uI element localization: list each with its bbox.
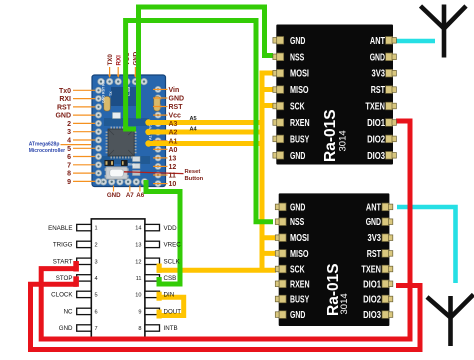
svg-text:BUSY: BUSY xyxy=(290,134,310,145)
svg-text:3V3: 3V3 xyxy=(368,233,382,244)
svg-text:TRIGG: TRIGG xyxy=(53,242,73,249)
ATmega328 QFP chip xyxy=(106,127,137,159)
wire cyan U3 ANT to antenna AE1 xyxy=(396,39,435,44)
svg-text:GND: GND xyxy=(169,96,185,103)
svg-text:VREC: VREC xyxy=(164,242,182,249)
wire green Arduino GND to U4 NSS xyxy=(126,21,273,222)
svg-text:DOUT: DOUT xyxy=(164,309,182,316)
svg-text:DIN: DIN xyxy=(164,292,175,299)
svg-text:8mg: 8mg xyxy=(128,163,135,167)
svg-text:START: START xyxy=(53,259,73,266)
svg-text:RXEN: RXEN xyxy=(290,279,310,290)
Arduino crystal Y1 xyxy=(104,97,110,112)
svg-text:SCLK: SCLK xyxy=(164,259,181,266)
DIP timer chip U2 body xyxy=(91,219,145,339)
U3 pin labels xyxy=(290,36,385,162)
svg-text:A6: A6 xyxy=(136,192,144,199)
wire yellow branch to U4 MOSI xyxy=(260,235,277,240)
LoRa module U3 Ra-01S body xyxy=(276,25,393,165)
svg-text:TXEN: TXEN xyxy=(361,265,381,276)
svg-text:RXEN: RXEN xyxy=(290,118,310,129)
svg-text:GND: GND xyxy=(290,151,305,162)
svg-text:A4: A4 xyxy=(190,126,198,132)
reset button label xyxy=(185,169,204,182)
svg-text:GND: GND xyxy=(59,325,73,332)
svg-text:12: 12 xyxy=(169,164,177,171)
svg-text:6: 6 xyxy=(95,309,98,315)
svg-text:3014: 3014 xyxy=(339,293,350,314)
svg-text:5: 5 xyxy=(67,146,71,153)
svg-text:ANT: ANT xyxy=(366,202,381,213)
Arduino capacitor C1 xyxy=(154,97,160,112)
DIP pin numbers xyxy=(95,226,142,332)
svg-text:MOSI: MOSI xyxy=(290,69,309,80)
U4 left pads xyxy=(275,203,286,318)
svg-text:GND: GND xyxy=(55,113,71,120)
svg-text:VDD: VDD xyxy=(164,225,178,232)
Arduino bottom header pins xyxy=(100,179,148,186)
svg-text:ENABLE: ENABLE xyxy=(48,225,72,232)
SMD resistors xyxy=(105,157,141,176)
svg-text:6: 6 xyxy=(67,154,71,161)
Arduino top pin labels TX0 RXI VCC GND xyxy=(107,51,140,65)
svg-text:CLOCK: CLOCK xyxy=(51,292,73,299)
Arduino right pin column xyxy=(155,86,161,186)
U3 right pads xyxy=(386,37,397,160)
svg-text:Microcontroller: Microcontroller xyxy=(29,148,66,154)
svg-text:INTB: INTB xyxy=(164,325,178,332)
svg-text:TXEN: TXEN xyxy=(365,102,385,113)
svg-text:3: 3 xyxy=(67,129,71,136)
svg-text:8: 8 xyxy=(138,326,141,332)
svg-text:10: 10 xyxy=(135,292,141,298)
yellow terminal at SCLK pin xyxy=(157,264,162,273)
svg-text:11: 11 xyxy=(136,276,142,282)
svg-text:Vin: Vin xyxy=(169,87,180,94)
svg-text:13: 13 xyxy=(169,155,177,162)
svg-text:RST: RST xyxy=(371,85,385,96)
svg-text:ANT: ANT xyxy=(370,36,385,47)
svg-text:Tx0: Tx0 xyxy=(59,88,71,95)
svg-text:SCK: SCK xyxy=(290,102,305,113)
svg-text:4: 4 xyxy=(67,138,71,145)
svg-text:3V3: 3V3 xyxy=(372,69,386,80)
wire red U2 START to U3 DIO1 xyxy=(41,121,410,339)
wire yellow U2 DIN to DOUT loop xyxy=(157,297,184,315)
wire cyan U4 ANT to antenna AE2 xyxy=(397,207,456,283)
reset button SW1 xyxy=(105,167,129,179)
svg-text:BUSY: BUSY xyxy=(290,295,310,306)
svg-text:Ra-01S: Ra-01S xyxy=(322,109,339,162)
board silkscreen xyxy=(102,80,153,167)
antenna AE1 xyxy=(421,5,467,58)
svg-text:A0: A0 xyxy=(169,147,178,154)
svg-text:MISO: MISO xyxy=(290,85,309,96)
svg-text:12: 12 xyxy=(135,259,141,265)
svg-text:A2: A2 xyxy=(169,130,178,137)
reset button leader line xyxy=(124,172,184,174)
wire green Arduino VCC to U3 NSS xyxy=(139,7,274,119)
svg-text:RXI: RXI xyxy=(116,55,123,66)
svg-text:9: 9 xyxy=(67,179,71,186)
U4 pin labels xyxy=(290,202,381,321)
svg-text:GND: GND xyxy=(107,192,121,199)
svg-text:MISO: MISO xyxy=(290,249,309,260)
DIP right pin boxes 8-14 xyxy=(145,224,160,331)
DIP left labels xyxy=(48,225,73,332)
svg-text:NSS: NSS xyxy=(290,217,305,228)
wire green Arduino pin10 to U2 CSB xyxy=(146,180,180,284)
green terminal at CSB pin xyxy=(157,277,162,287)
svg-text:7: 7 xyxy=(67,162,71,169)
svg-text:Vcc: Vcc xyxy=(169,113,182,120)
svg-text:GND: GND xyxy=(290,202,305,213)
wire yellow from Arduino A1 xyxy=(148,141,265,146)
U3 part name Ra-01S 3014 xyxy=(322,109,349,162)
svg-text:GND RST RXI: GND RST RXI xyxy=(102,80,106,103)
yellow wire start tips at Arduino inner pads xyxy=(145,119,151,146)
DIP left pin boxes 1-7 xyxy=(77,224,92,331)
svg-text:MOSI: MOSI xyxy=(290,233,309,244)
top pin leader lines xyxy=(110,67,136,77)
svg-text:9: 9 xyxy=(138,309,141,315)
svg-text:1: 1 xyxy=(95,226,98,232)
red terminal at STOP pin xyxy=(73,276,79,287)
wire yellow branch to U4 MISO xyxy=(260,251,277,256)
Arduino voltage regulator xyxy=(113,113,121,119)
svg-text:RXI: RXI xyxy=(59,96,71,103)
wire yellow SPI bus vertical xyxy=(260,71,265,273)
svg-text:CSB: CSB xyxy=(164,275,177,282)
U4 right pads xyxy=(382,203,393,318)
svg-text:3014: 3014 xyxy=(338,130,349,151)
wire yellow branch to U3 SCK xyxy=(260,103,275,108)
Arduino top FTDI header pins xyxy=(98,78,148,85)
U4 part name Ra-01S 3014 xyxy=(325,263,350,316)
svg-text:3: 3 xyxy=(95,259,98,265)
wire yellow from Arduino A3 xyxy=(148,120,265,125)
svg-text:RST: RST xyxy=(169,104,184,111)
svg-text:2: 2 xyxy=(67,121,71,128)
svg-text:DIO1: DIO1 xyxy=(363,279,381,290)
wire red U2 STOP to U4 DIO1 xyxy=(31,284,421,349)
svg-text:7: 7 xyxy=(95,326,98,332)
svg-text:RST: RST xyxy=(57,104,72,111)
Arduino Pro Mini board U1 xyxy=(92,75,166,187)
svg-text:DIO3: DIO3 xyxy=(363,310,381,321)
svg-text:14: 14 xyxy=(135,226,141,232)
U3 left pads xyxy=(273,37,284,160)
svg-text:Button: Button xyxy=(185,176,204,182)
svg-text:13: 13 xyxy=(135,242,141,248)
svg-text:SCK: SCK xyxy=(290,265,305,276)
antenna AE2 xyxy=(427,295,474,347)
DIP right labels xyxy=(164,225,182,332)
red terminal at START pin xyxy=(73,261,79,272)
svg-text:ATmega628p: ATmega628p xyxy=(29,141,60,147)
LoRa module U4 Ra-01S body xyxy=(279,193,390,326)
wire yellow branch to U3 MOSI xyxy=(260,71,275,76)
wire yellow U2 SCLK to U4 SCK xyxy=(157,268,276,273)
svg-text:11: 11 xyxy=(169,173,177,180)
svg-text:GND: GND xyxy=(370,52,385,63)
wire yellow branch to U3 MISO xyxy=(260,87,275,92)
Arduino left pin labels xyxy=(55,88,71,186)
svg-text:DIO3: DIO3 xyxy=(367,151,385,162)
svg-text:TX0: TX0 xyxy=(107,54,114,66)
Arduino bottom pin labels GND A7 A6 xyxy=(107,192,145,199)
svg-text:NSS: NSS xyxy=(290,52,305,63)
svg-text:RST: RST xyxy=(367,249,381,260)
svg-text:A3: A3 xyxy=(169,121,178,128)
wire yellow from Arduino A2 xyxy=(148,130,265,135)
Arduino left pin leader lines xyxy=(73,90,95,181)
svg-text:NC: NC xyxy=(64,309,73,316)
svg-text:A1: A1 xyxy=(169,138,178,145)
wire net labels A5 A4 xyxy=(190,116,198,132)
svg-text:Reset: Reset xyxy=(185,169,201,175)
svg-text:5: 5 xyxy=(95,292,98,298)
svg-text:STOP: STOP xyxy=(56,275,73,282)
svg-text:DIO2: DIO2 xyxy=(363,295,381,306)
svg-text:TX: TX xyxy=(109,91,113,96)
yellow terminal at DOUT pin xyxy=(157,310,162,319)
ATmega328p microcontroller label xyxy=(29,141,66,154)
svg-text:10: 10 xyxy=(169,181,177,188)
svg-text:GND: GND xyxy=(290,310,305,321)
Arduino left pin column xyxy=(95,87,101,184)
svg-text:2: 2 xyxy=(95,242,98,248)
Arduino right pin labels xyxy=(169,87,185,188)
svg-text:A5: A5 xyxy=(190,116,197,122)
svg-text:GND: GND xyxy=(290,36,305,47)
svg-text:8: 8 xyxy=(67,171,71,178)
Arduino right pin leader lines xyxy=(153,89,168,183)
svg-text:GND: GND xyxy=(366,217,381,228)
ATmega label leader line xyxy=(61,144,92,146)
Arduino bottom pin leader lines xyxy=(114,186,140,192)
svg-text:4: 4 xyxy=(95,276,98,282)
svg-text:A7: A7 xyxy=(126,192,134,199)
svg-text:DIO2: DIO2 xyxy=(367,134,385,145)
yellow terminal at DIN pin xyxy=(157,292,162,301)
svg-text:DIO1: DIO1 xyxy=(367,118,385,129)
